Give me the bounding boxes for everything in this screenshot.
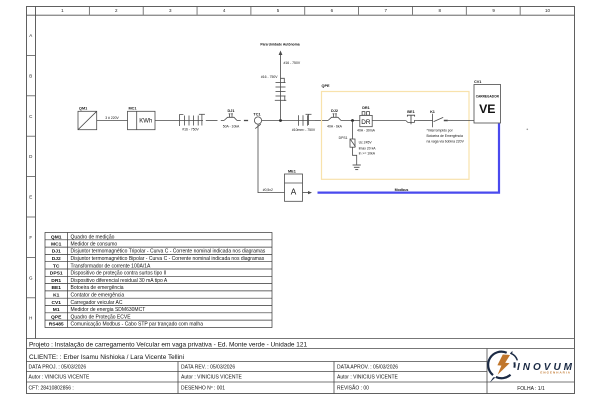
svg-text:CLIENTE: : Erber Isamu Nishiok: CLIENTE: : Erber Isamu Nishioka / Lara V… — [29, 354, 184, 361]
svg-text:ENGENHARIA: ENGENHARIA — [540, 370, 571, 374]
svg-text:Imax 20 kA: Imax 20 kA — [359, 146, 377, 150]
logo bottom tail sliver — [490, 377, 496, 383]
TC1 secondary wire down to ME1 — [258, 124, 285, 193]
svg-text:QPE: QPE — [322, 84, 330, 88]
svg-text:Dispositivo de proteção contra: Dispositivo de proteção contra surtos ti… — [71, 271, 167, 277]
svg-text:#10mm² - 750V: #10mm² - 750V — [292, 128, 316, 132]
svg-text:#16 - 750V: #16 - 750V — [261, 75, 278, 79]
svg-text:FOLHA : 1/1: FOLHA : 1/1 — [517, 386, 545, 392]
svg-text:Contator de emergência: Contator de emergência — [71, 293, 125, 299]
svg-text:DPS1: DPS1 — [339, 136, 348, 140]
svg-text:na vaga via bobina 220V: na vaga via bobina 220V — [427, 139, 465, 143]
svg-text:Modbus: Modbus — [395, 188, 409, 192]
Modbus blue line — [318, 124, 500, 193]
vertical branch to autonomous unit — [280, 53, 282, 121]
left ruler letters — [29, 33, 33, 320]
svg-text:RS485: RS485 — [49, 322, 64, 328]
svg-text:DR1: DR1 — [362, 106, 370, 110]
svg-text:CFT: 28410802856 :: CFT: 28410802856 : — [29, 386, 74, 392]
ground — [353, 165, 361, 170]
wire QM1-MC1 — [97, 120, 128, 122]
svg-text:Transformador de corrente 100A: Transformador de corrente 100A/1A — [71, 263, 152, 269]
svg-text:A: A — [291, 187, 297, 196]
wire TC1-junction — [262, 120, 296, 122]
BE1 emergency pushbutton — [406, 115, 418, 124]
wire cable1-DJ1 — [206, 120, 218, 122]
svg-text:DESENHO Nº : 001: DESENHO Nº : 001 — [181, 386, 225, 392]
wire BE1-K1 — [418, 120, 433, 122]
svg-text:In >= 10kA: In >= 10kA — [359, 152, 376, 156]
svg-text:KWh: KWh — [139, 119, 152, 125]
svg-text:CARREGADOR: CARREGADOR — [476, 95, 500, 99]
stray dot mark — [527, 129, 529, 131]
wire cable2-QPE — [315, 120, 328, 122]
svg-text:Quadro de Proteção ECVE: Quadro de Proteção ECVE — [71, 314, 132, 320]
svg-text:TC: TC — [53, 263, 60, 269]
svg-text:#0,5x2: #0,5x2 — [263, 188, 273, 192]
TC1 current transformer — [254, 117, 261, 124]
left ruler dividers — [26, 55, 36, 297]
svg-text:DR1: DR1 — [51, 278, 61, 284]
svg-text:Autor : VINICIUS VICENTE: Autor : VINICIUS VICENTE — [29, 374, 91, 380]
svg-text:VE: VE — [479, 102, 495, 116]
svg-text:Carregador veicular AC: Carregador veicular AC — [71, 300, 123, 306]
svg-text:QM1: QM1 — [51, 234, 62, 240]
wire DJ2-DR1 — [341, 120, 360, 122]
lightning bolt — [497, 355, 510, 375]
svg-text:ME1: ME1 — [288, 170, 296, 174]
svg-text:BE1: BE1 — [407, 110, 414, 114]
svg-text:DATA PROJ. : 05/03/2026: DATA PROJ. : 05/03/2026 — [29, 364, 87, 370]
svg-text:MC1: MC1 — [51, 241, 62, 247]
logo INOVUM — [488, 352, 575, 383]
svg-text:Autor : VINICIUS VICENTE: Autor : VINICIUS VICENTE — [181, 374, 243, 380]
svg-text:Comunicação Modbus - Cabo STP: Comunicação Modbus - Cabo STP par trança… — [71, 322, 204, 328]
svg-text:DATA REV. : 05/03/2026: DATA REV. : 05/03/2026 — [181, 364, 235, 370]
svg-text:Botoeira de Emergência: Botoeira de Emergência — [427, 134, 463, 138]
svg-text:G: G — [29, 275, 33, 280]
svg-text:DR: DR — [361, 119, 371, 126]
wire DJ1-TC1 — [237, 120, 241, 122]
svg-text:Projeto : Instalação de carreg: Projeto : Instalação de carregamento Veí… — [29, 342, 307, 349]
svg-text:10: 10 — [545, 8, 551, 13]
svg-text:A: A — [29, 33, 32, 38]
QM1 — [78, 111, 97, 129]
svg-text:Medidor de consumo: Medidor de consumo — [71, 241, 118, 247]
wire MC1-cable1 — [155, 120, 179, 122]
logo accent tick — [510, 352, 512, 354]
MC1 — [128, 111, 156, 129]
wire K1-CV1 — [448, 120, 474, 122]
svg-text:Quadro de medição: Quadro de medição — [71, 234, 115, 240]
svg-text:QM1: QM1 — [79, 106, 87, 110]
logo right dash — [513, 362, 515, 367]
svg-text:QPE: QPE — [51, 314, 62, 320]
svg-text:F: F — [29, 235, 32, 240]
ME1 output arrow — [303, 192, 311, 194]
svg-text:CV1: CV1 — [474, 80, 481, 84]
svg-text:50A - 10kA: 50A - 10kA — [223, 125, 240, 129]
svg-text:Dispositivo diferencial residu: Dispositivo diferencial residual 30 mA t… — [71, 278, 168, 284]
cable marker on vertical branch — [275, 78, 287, 101]
cable marker 2 — [296, 114, 315, 126]
svg-text:M1: M1 — [53, 307, 60, 313]
ME1 energy meter — [285, 174, 303, 201]
junction node DPS — [351, 119, 354, 122]
svg-text:Disjuntor termomagnético Bipol: Disjuntor termomagnético Bipolar - Curva… — [71, 256, 265, 262]
DR1 residual device — [360, 112, 372, 127]
top ruler numbers — [61, 8, 550, 13]
svg-text:*Interrompido por: *Interrompido por — [427, 128, 454, 132]
svg-text:Medidor de energia SDM630MCT: Medidor de energia SDM630MCT — [71, 307, 146, 313]
svg-text:TC1: TC1 — [253, 113, 260, 117]
DPS1 branch — [350, 121, 357, 165]
svg-text:E: E — [29, 195, 32, 200]
svg-text:Para Unidade Autônoma: Para Unidade Autônoma — [260, 43, 299, 47]
top ruler band line — [27, 14, 575, 16]
svg-text:DJ2: DJ2 — [331, 109, 338, 113]
left ruler band line — [35, 7, 37, 339]
svg-text:40A - 30mA: 40A - 30mA — [357, 128, 375, 132]
svg-text:Botoeira de emergência: Botoeira de emergência — [71, 285, 124, 291]
logo flick top-right — [511, 354, 517, 360]
svg-text:K1: K1 — [53, 293, 60, 299]
svg-text:MC1: MC1 — [129, 106, 137, 110]
svg-text:3 # 220V: 3 # 220V — [105, 116, 119, 120]
svg-text:DPS1: DPS1 — [50, 271, 63, 277]
top ruler dividers — [89, 6, 520, 15]
svg-text:DJ1: DJ1 — [52, 249, 61, 255]
QPE box — [322, 92, 470, 180]
K1 contactor contact — [433, 114, 444, 128]
svg-text:CV1: CV1 — [51, 300, 61, 306]
logo arc lower — [496, 375, 511, 379]
svg-text:BE1: BE1 — [51, 285, 61, 291]
junction node — [279, 119, 282, 122]
svg-text:DATA APROV. : 05/03/2026: DATA APROV. : 05/03/2026 — [337, 364, 398, 370]
svg-text:DJ1: DJ1 — [228, 109, 235, 113]
svg-text:#16 - 750V: #16 - 750V — [182, 128, 199, 132]
svg-text:#16 - 750V: #16 - 750V — [284, 61, 301, 65]
svg-text:DJ2: DJ2 — [52, 256, 61, 262]
arrowhead to autonomous unit — [279, 51, 283, 56]
cable marker 1 — [179, 114, 205, 126]
svg-text:Autor : VINICIUS VICENTE: Autor : VINICIUS VICENTE — [337, 374, 399, 380]
svg-text:H: H — [29, 315, 32, 320]
logo arc upper (C swoosh) — [488, 352, 507, 375]
svg-text:Disjuntor termomagnético Tripo: Disjuntor termomagnético Tripolar - Curv… — [71, 249, 266, 255]
svg-text:B: B — [29, 73, 32, 78]
DJ1 breaker — [224, 114, 237, 121]
TC1 slash tick — [255, 124, 261, 128]
wire DR1-BE1 — [372, 120, 406, 122]
svg-text:Uc 245V: Uc 245V — [359, 141, 373, 145]
svg-text:K1: K1 — [430, 110, 435, 114]
CV1 charger box — [474, 85, 501, 124]
svg-text:40A - 6kA: 40A - 6kA — [327, 125, 342, 129]
DJ2 breaker — [328, 114, 341, 121]
svg-text:REVISÃO : 00: REVISÃO : 00 — [337, 385, 369, 392]
